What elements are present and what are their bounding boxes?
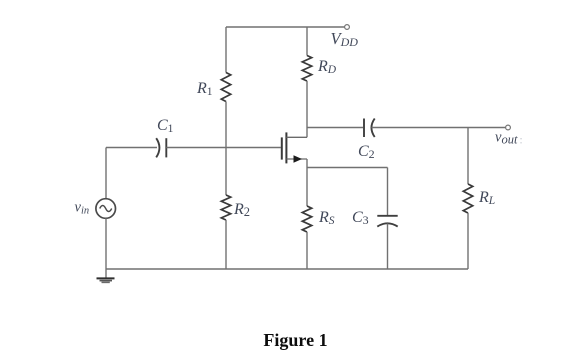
resistor RD (302, 56, 311, 82)
capacitor C2 (364, 119, 375, 138)
svg-text:Figure 1: Figure 1 (263, 330, 327, 350)
resistor R2 (221, 195, 230, 220)
wire top rail (226, 26, 345, 28)
wire C3 top (387, 168, 389, 216)
wire RL top (467, 128, 469, 185)
capacitor C1 (156, 138, 166, 157)
wire R1 to gate node (225, 102, 227, 148)
svg-text:vout:: vout: (495, 130, 523, 147)
wire RD to drain (306, 81, 308, 137)
wire R2 bottom (225, 220, 227, 269)
wire bottom rail (106, 268, 468, 270)
wire vin top (105, 148, 107, 199)
wire RS bottom (306, 232, 308, 269)
wire drain to C2 (307, 127, 363, 129)
resistor R1 (221, 73, 230, 102)
wire C2 to vout (372, 127, 506, 129)
transistor Q1 nmos (282, 132, 307, 163)
resistor RS (302, 206, 311, 232)
wire source to C3 (307, 167, 388, 169)
wire C3 bottom (387, 224, 389, 270)
wire source down (306, 159, 308, 206)
capacitor C3 (377, 216, 397, 227)
wire gate node to R2 (225, 148, 227, 196)
terminal VDD (345, 25, 350, 30)
wire vin bottom (105, 218, 107, 269)
ground (97, 269, 115, 282)
wire R1 top (225, 27, 227, 73)
terminal vout (506, 125, 511, 130)
source vin (96, 199, 116, 219)
wire RD top (306, 27, 308, 56)
wire RL bottom (467, 213, 469, 269)
resistor RL (463, 184, 472, 213)
wire C1 to gate (166, 147, 281, 149)
wire vin to C1 (106, 147, 157, 149)
